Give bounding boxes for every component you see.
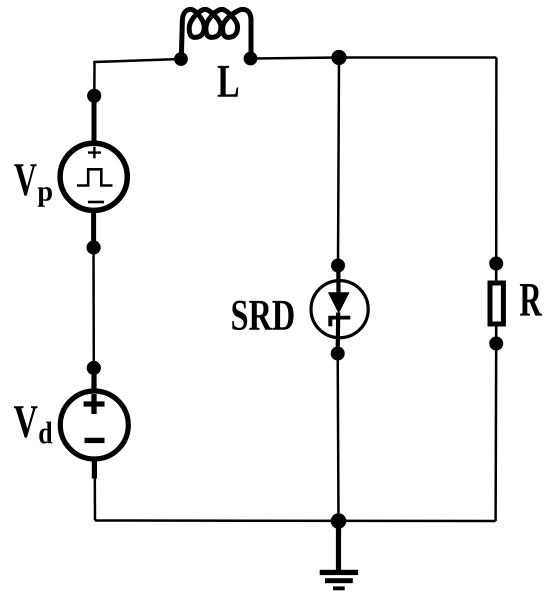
- ground stem: [336, 521, 341, 572]
- wire bottom horizontal: [95, 519, 496, 522]
- diode triangle (anode): [328, 292, 350, 314]
- wire R bottom short lead: [495, 326, 498, 344]
- node: R bottom terminal: [489, 337, 503, 351]
- ground bar 2: [325, 578, 353, 583]
- node: inductor right terminal: [244, 52, 258, 66]
- Vp minus sign: [88, 201, 104, 204]
- Vd plus sign (bold): [84, 394, 105, 414]
- Vd minus sign (bold): [85, 438, 105, 443]
- wire middle branch vertical (junction to SRD): [338, 58, 339, 266]
- wire R top short lead: [495, 264, 498, 282]
- node: SRD bottom terminal: [331, 347, 345, 361]
- node: Vp bottom terminal: [87, 240, 101, 254]
- node: SRD top terminal: [331, 259, 345, 273]
- node: Vd top terminal: [87, 361, 101, 375]
- node: bottom junction: [331, 513, 347, 529]
- diode circle SRD: [311, 281, 368, 338]
- SRD top lead: [336, 266, 340, 294]
- ground bar 3: [333, 586, 345, 590]
- wire left branch middle (Vp to Vd): [92, 248, 95, 369]
- label R: [520, 284, 542, 316]
- node: inductor left terminal: [174, 52, 188, 66]
- source Vp circle: [60, 143, 127, 210]
- label Vp: [14, 164, 36, 196]
- label Vd: [14, 406, 38, 437]
- SRD bottom lead: [336, 313, 341, 354]
- node: R top terminal: [489, 257, 503, 271]
- wire left branch lower (Vd to bottom corner): [94, 478, 97, 521]
- wire top-left corner (Vp top to inductor left): [94, 59, 181, 96]
- node: Vp top terminal: [87, 89, 101, 103]
- resistor R body: [490, 283, 503, 324]
- Vp top lead: [92, 96, 97, 144]
- label L: [218, 66, 239, 97]
- Vp pulse waveform: [77, 169, 113, 185]
- node: top junction: [331, 50, 346, 65]
- label SRD: [232, 301, 293, 331]
- source Vd circle: [60, 391, 128, 459]
- Vd bottom lead: [92, 458, 97, 479]
- wire middle branch lower (SRD to bottom junction): [336, 354, 339, 522]
- diode cathode bar with left leg: [328, 316, 350, 327]
- Vd top lead: [91, 368, 96, 392]
- inductor L coil: [181, 9, 251, 59]
- Vp bottom lead: [91, 210, 96, 248]
- Vp plus sign: [88, 147, 101, 159]
- wire right branch upper (corner to R): [495, 58, 498, 264]
- wire top (inductor to top-right corner): [251, 58, 497, 59]
- wire right branch lower (R to bottom corner): [494, 344, 497, 522]
- ground bar 1: [320, 570, 358, 575]
